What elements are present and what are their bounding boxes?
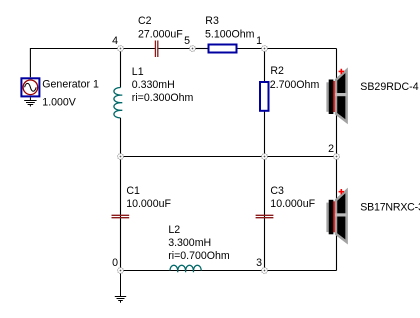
speaker SP2 woofer — [326, 189, 346, 242]
svg-text:4: 4 — [112, 35, 118, 47]
wire C2 right plate to node 5 — [158, 48, 192, 50]
svg-text:ri=0.300Ohm: ri=0.300Ohm — [132, 92, 194, 104]
svg-text:0.330mH: 0.330mH — [132, 79, 175, 91]
node 5 junction dot — [190, 46, 196, 52]
node 3 junction dot — [262, 268, 268, 274]
capacitor C2 plates — [155, 41, 157, 58]
ground at node 0 — [115, 271, 126, 303]
wire node 4 down to L1 — [120, 49, 122, 88]
wire R3 to node 1 — [237, 48, 265, 50]
svg-text:R2: R2 — [270, 65, 284, 77]
svg-text:ri=0.700Ohm: ri=0.700Ohm — [168, 250, 230, 262]
svg-text:0: 0 — [112, 257, 118, 269]
junction A dot — [118, 154, 124, 160]
wire L1 to middle junction — [120, 118, 122, 157]
node 2 junction dot — [334, 154, 340, 160]
svg-text:3.300mH: 3.300mH — [168, 237, 211, 249]
svg-text:L2: L2 — [168, 224, 180, 236]
node 1 junction dot — [262, 46, 268, 52]
wire generator to node 4 top-left corner — [30, 49, 120, 78]
wire node 1 to top-right corner — [265, 48, 337, 50]
capacitor C1 plates — [112, 215, 130, 217]
svg-text:5.100Ohm: 5.100Ohm — [205, 28, 255, 40]
svg-text:10.000uF: 10.000uF — [270, 198, 315, 210]
node 4 junction dot — [118, 46, 124, 52]
wire node 5 to R3 — [193, 48, 209, 50]
svg-text:Generator 1: Generator 1 — [42, 79, 99, 91]
svg-text:2: 2 — [328, 143, 334, 155]
resistor R3 body — [209, 45, 237, 53]
middle wire from junction A to node 2 — [121, 156, 337, 158]
inductor L1 coil — [114, 88, 122, 118]
svg-text:R3: R3 — [205, 15, 219, 27]
generator V1 symbol — [21, 78, 39, 96]
speaker SP1 tweeter — [326, 69, 346, 122]
wire C1 vertical from junction A to node 0 — [120, 157, 122, 271]
resistor R2 body — [260, 82, 269, 111]
bottom wire node 0 to bottom-right corner — [121, 270, 337, 272]
svg-text:L1: L1 — [132, 66, 144, 78]
junction B dot — [262, 154, 268, 160]
svg-text:2.700Ohm: 2.700Ohm — [270, 79, 320, 91]
svg-text:C1: C1 — [126, 185, 140, 197]
svg-text:SB17NRXC-35: SB17NRXC-35 — [360, 202, 420, 214]
svg-text:C3: C3 — [270, 185, 284, 197]
inductor L2 coil — [170, 265, 201, 272]
svg-text:SB29RDC-4: SB29RDC-4 — [360, 81, 418, 93]
svg-text:27.000uF: 27.000uF — [138, 28, 183, 40]
wire right vertical through tweeter to node 2 — [336, 49, 338, 157]
svg-text:3: 3 — [256, 257, 262, 269]
wire C3 vertical from junction B to node 3 — [264, 157, 266, 271]
svg-text:C2: C2 — [138, 15, 152, 27]
wire R2 vertical from node 1 to junction B — [264, 49, 266, 157]
node 0 junction dot — [118, 268, 124, 274]
svg-text:5: 5 — [184, 35, 190, 47]
wire node 2 through woofer to bottom-right corner — [336, 157, 338, 271]
wire node 4 to C2 left plate — [121, 48, 155, 50]
ground at generator — [24, 97, 36, 106]
svg-text:10.000uF: 10.000uF — [126, 198, 171, 210]
svg-text:1: 1 — [256, 35, 262, 47]
capacitor C3 plates — [256, 215, 274, 217]
svg-text:1.000V: 1.000V — [42, 97, 77, 109]
